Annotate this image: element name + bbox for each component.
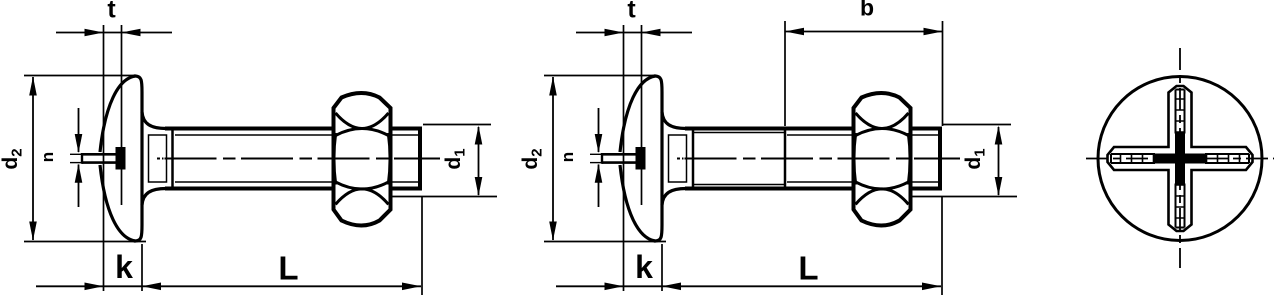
t arrow right — [122, 29, 141, 37]
L arrow left (points left at head face) — [142, 283, 161, 291]
fillet head-to-shank top — [142, 112, 166, 129]
k extension line right (below head face) — [141, 244, 143, 291]
head top corner + right face + bottom corner — [654, 76, 662, 241]
b extension vertical right (bolt end) — [942, 21, 944, 126]
svg-text:k: k — [115, 249, 133, 285]
d1 extension line bottom — [911, 196, 1017, 198]
screw head dome arc (lower) — [620, 165, 655, 241]
svg-text:t: t — [627, 0, 636, 24]
t dimension extension vertical (right) — [121, 25, 123, 205]
n dimension line lower + arrow up — [598, 165, 600, 208]
screw head dome arc (upper) — [100, 76, 135, 152]
slot top line — [82, 153, 117, 156]
d1 label — [442, 148, 469, 169]
thread start vertical — [692, 128, 695, 190]
nut lower facet chamfer arc (rising) — [856, 189, 909, 205]
d2 extension line top — [24, 75, 135, 77]
n dimension line upper + arrow down — [598, 108, 600, 152]
b dimension line — [785, 31, 943, 33]
n label — [558, 152, 577, 162]
k extension line right (below head face) — [661, 244, 663, 291]
t dimension line — [56, 32, 172, 34]
thread root bottom line — [175, 181, 419, 183]
d1 arrow down — [995, 177, 1003, 196]
phillips narrow slot lines, left arm — [1111, 153, 1155, 155]
d1 dimension line — [998, 127, 1000, 195]
thread root bottom line — [787, 181, 939, 183]
phillips step boxes, down arm — [1176, 207, 1185, 218]
nut middle facet left arc — [334, 133, 336, 185]
d2 extension line bottom — [544, 241, 666, 243]
centerline (axis) — [677, 158, 680, 160]
d2 extension line top — [544, 75, 655, 77]
thread root top line — [175, 134, 419, 136]
phillips step boxes, up arm — [1176, 99, 1185, 110]
slot opening face vertical — [601, 153, 603, 164]
k arrow (points right at left extension) — [605, 283, 624, 291]
thread outer diameter top line — [685, 127, 940, 131]
svg-text:b: b — [860, 0, 874, 21]
phillips narrow slot lines, down arm — [1175, 184, 1177, 228]
b arrow right — [924, 28, 943, 36]
recess depth solid block — [636, 147, 646, 170]
phillips solid center cross — [1154, 133, 1206, 185]
d2 arrow up — [549, 77, 557, 96]
nut upper facet chamfer arc (sagging) — [856, 113, 909, 129]
slot bottom line — [602, 161, 637, 164]
slot bottom line — [82, 161, 117, 164]
phillips step boxes, right arm — [1229, 154, 1240, 163]
svg-text:t: t — [107, 0, 116, 24]
d1 extension line bottom — [391, 196, 497, 198]
phillips narrow slot lines, up arm — [1184, 90, 1186, 134]
n dimension line upper + arrow down — [78, 108, 80, 152]
d1 arrow up — [995, 126, 1003, 145]
recess depth solid block — [116, 147, 126, 170]
t dimension extension vertical (right) — [641, 25, 643, 205]
d2 dimension line — [32, 77, 34, 240]
d2 arrow down — [29, 222, 37, 241]
b arrow left — [785, 28, 804, 36]
L arrow right (points right at bolt end) — [402, 283, 421, 291]
svg-text:k: k — [635, 249, 653, 285]
hex nut outline (white filled) — [334, 93, 391, 226]
t arrow left — [85, 29, 104, 37]
nut upper facet chamfer arc (sagging) — [336, 113, 389, 129]
screw head dome arc (upper) — [620, 76, 655, 152]
d1 dimension line — [478, 127, 480, 195]
b extension vertical left (thread runout) — [784, 21, 786, 126]
k arrow (points right at left extension) — [85, 283, 104, 291]
t dimension extension vertical (left, long: also k extension) — [623, 25, 625, 291]
d2 arrow down — [549, 222, 557, 241]
head front view circle — [1098, 77, 1262, 241]
fillet head-to-shank bottom — [142, 189, 166, 206]
thread runout vertical — [784, 128, 787, 190]
nut middle facet left arc — [854, 133, 856, 185]
n extension lines — [70, 153, 82, 155]
k and L dimension line — [556, 285, 941, 287]
nut middle facet bottom chamfer arc (sagging) — [336, 182, 389, 189]
d2 label — [519, 148, 546, 169]
d1 arrow up — [475, 126, 483, 145]
svg-text:n: n — [558, 152, 577, 162]
t arrow right — [642, 29, 661, 37]
phillips narrow slot lines, right arm — [1205, 162, 1249, 164]
nut middle facet right arc — [388, 133, 390, 185]
t dimension line — [576, 32, 692, 34]
svg-text:L: L — [798, 250, 818, 287]
thread outer diameter bottom line — [685, 187, 940, 191]
plain shank top line — [694, 132, 784, 134]
d2 label — [0, 148, 26, 169]
slot opening face vertical — [81, 153, 83, 164]
thread outer diameter top line — [165, 127, 420, 131]
centerline (axis) — [157, 158, 160, 160]
plain shank bottom line — [694, 184, 784, 186]
square neck box under head — [669, 135, 687, 182]
phillips cross outer boundary — [1108, 86, 1253, 231]
front view horizontal centerline — [1086, 158, 1274, 160]
fillet head-to-shank bottom — [662, 189, 686, 206]
svg-text:L: L — [278, 250, 298, 287]
d2 arrow up — [29, 77, 37, 96]
k and L dimension line — [36, 285, 421, 287]
slot top line — [602, 153, 637, 156]
t dimension extension vertical (left, long: also k extension) — [103, 25, 105, 291]
n label — [38, 152, 57, 162]
n extension lines — [590, 153, 602, 155]
d1 label — [962, 148, 989, 169]
L extension vertical at bolt end — [941, 196, 943, 295]
d1 arrow down — [475, 177, 483, 196]
thread start vertical — [171, 128, 174, 190]
fillet head-to-shank top — [662, 112, 686, 129]
head top corner + right face + bottom corner — [134, 76, 142, 241]
d2 dimension line — [552, 77, 554, 240]
L extension vertical at bolt end — [421, 196, 423, 295]
hex nut outline (white filled) — [854, 93, 911, 226]
d1 extension line top — [943, 124, 1011, 126]
front view vertical centerline — [1179, 48, 1181, 268]
nut middle facet top chamfer arc (rising) — [856, 129, 909, 136]
d2 extension line bottom — [24, 241, 146, 243]
L arrow left (points left at head face) — [662, 283, 681, 291]
bolt end face — [938, 127, 942, 191]
screw head dome arc (lower) — [100, 165, 135, 241]
thread outer diameter bottom line — [165, 187, 420, 191]
nut middle facet bottom chamfer arc (sagging) — [856, 182, 909, 189]
d1 extension line top — [423, 124, 491, 126]
phillips step boxes, left arm — [1121, 154, 1132, 163]
nut middle facet top chamfer arc (rising) — [336, 129, 389, 136]
nut lower facet chamfer arc (rising) — [336, 189, 389, 205]
L arrow right (points right at bolt end) — [922, 283, 941, 291]
bolt end face — [418, 127, 422, 191]
t arrow left — [605, 29, 624, 37]
square neck box under head — [149, 135, 167, 182]
n dimension line lower + arrow up — [78, 165, 80, 208]
nut middle facet right arc — [908, 133, 910, 185]
thread root top line — [787, 134, 939, 136]
svg-text:n: n — [38, 152, 57, 162]
